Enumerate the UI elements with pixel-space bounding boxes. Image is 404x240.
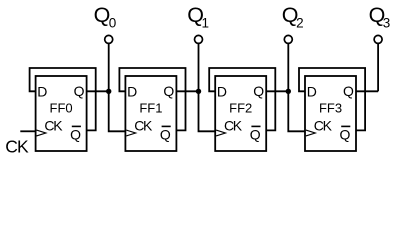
svg-text:FF2: FF2	[229, 101, 252, 116]
flip-flop U3 body (FF3)	[305, 76, 356, 151]
svg-text:FF1: FF1	[139, 101, 162, 116]
svg-text:D: D	[127, 83, 137, 99]
label Q3 (output name)	[369, 3, 391, 30]
svg-text:CK: CK	[134, 118, 153, 134]
svg-text:CK: CK	[314, 118, 333, 134]
FF2 pin label Q-bar	[250, 126, 261, 142]
svg-text:CK: CK	[5, 137, 29, 157]
wire: FF3 Q-bar feedback loop to D input	[299, 68, 365, 130]
wire: FF1 Q-bar feedback loop to D input	[119, 68, 185, 130]
FF3 clock edge-trigger wedge	[306, 130, 315, 136]
wire: node Q0 up to output terminal	[108, 44, 110, 92]
svg-text:Q: Q	[340, 126, 351, 142]
terminal Q1	[195, 35, 203, 43]
svg-text:Q: Q	[253, 83, 264, 99]
svg-text:CK: CK	[224, 118, 243, 134]
svg-text:Q: Q	[250, 126, 261, 142]
FF2 clock edge-trigger wedge	[216, 130, 225, 136]
svg-text:D: D	[37, 83, 47, 99]
label Q2 (output name)	[282, 3, 304, 30]
wire: FF0 Q-bar feedback loop to D input	[30, 68, 96, 130]
wire: FF3 Q output to node Q3	[356, 90, 378, 92]
svg-text:3: 3	[383, 15, 391, 30]
FF1 pin label Q-bar	[160, 126, 171, 142]
wire: FF1 Q output to node Q1	[176, 90, 198, 92]
svg-text:FF0: FF0	[50, 101, 73, 116]
svg-text:0: 0	[109, 15, 117, 30]
wire: node Q0 down to FF1 CK input	[109, 91, 126, 131]
svg-text:Q: Q	[74, 83, 85, 99]
wire: node Q1 down to FF2 CK input	[199, 91, 216, 131]
junction dot: node Q2	[286, 89, 291, 94]
FF3 pin label Q-bar	[340, 126, 351, 142]
wire: node Q1 up to output terminal	[198, 44, 200, 92]
wire: FF0 Q output to node Q0	[87, 90, 109, 92]
wire: node Q3 up to output terminal	[377, 44, 379, 92]
svg-text:2: 2	[296, 15, 304, 30]
wire: node Q2 up to output terminal	[287, 44, 289, 92]
FF0 clock edge-trigger wedge	[37, 130, 46, 136]
wire: node Q2 down to FF3 CK input	[288, 91, 305, 131]
svg-text:D: D	[307, 83, 317, 99]
wire: FF2 Q-bar feedback loop to D input	[209, 68, 275, 130]
label Q1 (output name)	[187, 3, 209, 30]
wire: FF2 Q output to node Q2	[266, 90, 288, 92]
wire: external clock CK to FF0 CK input	[20, 130, 35, 132]
svg-text:Q: Q	[163, 83, 174, 99]
svg-text:Q: Q	[343, 83, 354, 99]
junction dot: node Q0	[106, 89, 111, 94]
terminal Q2	[284, 35, 292, 43]
terminal Q3	[374, 35, 382, 43]
svg-text:FF3: FF3	[319, 101, 342, 116]
flip-flop U0 body (FF0)	[36, 76, 87, 151]
svg-text:1: 1	[202, 15, 210, 30]
svg-text:Q: Q	[70, 126, 81, 142]
svg-text:D: D	[217, 83, 227, 99]
svg-text:Q: Q	[160, 126, 171, 142]
FF0 pin label Q-bar	[70, 126, 81, 142]
junction dot: node Q1	[196, 89, 201, 94]
FF1 clock edge-trigger wedge	[126, 130, 135, 136]
terminal Q0	[105, 35, 113, 43]
flip-flop U1 body (FF1)	[125, 76, 176, 151]
label Q0 (output name)	[94, 3, 117, 30]
svg-text:CK: CK	[44, 118, 63, 134]
flip-flop U2 body (FF2)	[215, 76, 266, 151]
